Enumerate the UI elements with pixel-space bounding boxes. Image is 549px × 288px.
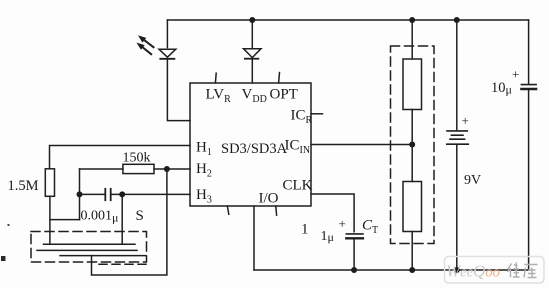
battery BT1 9V [447, 20, 469, 270]
wire ICIN to resistor divider [311, 144, 412, 146]
wire R2 right lead to H2 pin [154, 168, 190, 170]
wire IC bottom pin to bottom bus [253, 206, 255, 270]
svg-text:+: + [339, 216, 346, 231]
capacitor C3 10u [521, 85, 536, 89]
pin stub below I/O [275, 206, 278, 215]
svg-text:OPT: OPT [270, 87, 298, 103]
wire CLK to CT cap [311, 194, 354, 232]
wire C3 to bottom bus [528, 90, 530, 271]
capacitor C2 CT 1u [346, 234, 363, 238]
resistor RA (upper, in dashed box) [403, 59, 422, 110]
resistor RB (lower, in dashed box) [403, 182, 422, 232]
pin stub bottom-left [227, 206, 229, 214]
wire LED anode from top bus [166, 20, 168, 48]
scan noise speck [8, 224, 10, 226]
junction top bus / divider [409, 17, 415, 23]
junction top bus / battery [454, 17, 460, 23]
svg-text:1μ: 1μ [321, 229, 334, 244]
wire right edge from top bus to C3 [528, 20, 530, 84]
svg-text:9V: 9V [464, 173, 481, 188]
dashed enclosure resistor divider [391, 46, 435, 244]
svg-text:CLK: CLK [283, 178, 313, 194]
svg-text:1: 1 [301, 222, 309, 238]
wire top bus to RA [411, 20, 413, 59]
resistor R1 1.5M [45, 169, 54, 197]
junction CT bottom [351, 267, 357, 273]
touch plate S upper electrode [44, 243, 136, 245]
wire 150k left lead [80, 168, 123, 170]
pin stub ICR (right) [311, 113, 323, 115]
wire RA to RB [411, 110, 413, 182]
wire branch R1 leg to C1 node [50, 219, 80, 221]
junction top bus / VDD diode [249, 17, 255, 23]
LED D1 [137, 36, 176, 59]
wire H1 net from IC to R1 top [50, 146, 191, 169]
scan noise mark bottom-left [1, 256, 6, 261]
wire top supply bus [167, 19, 528, 21]
wire bottom ground bus [254, 269, 529, 271]
IC U1 SD3/SD3A body [190, 83, 311, 206]
svg-text:SD3/SD3A: SD3/SD3A [221, 141, 288, 157]
svg-text:+: + [462, 113, 469, 128]
junction divider bottom [409, 267, 415, 273]
junction battery bottom [454, 267, 460, 273]
svg-text:150k: 150k [123, 151, 151, 166]
wire RB to bottom bus [411, 232, 413, 271]
junction C1 left plate node [77, 191, 83, 197]
wire H2 node down to lower plate [92, 169, 167, 275]
junction divider midpoint [409, 142, 415, 148]
wire LED cathode down and into IC left side [167, 59, 190, 121]
pin stub OPT (top) [278, 73, 281, 84]
wire C1-left node vertical (joins 150k lead) [79, 169, 81, 220]
dashed second outline fragment of sensor S [99, 263, 147, 265]
junction C1 right / H3 node [119, 191, 125, 197]
dashed enclosure of sensor S [31, 232, 147, 263]
svg-text:I/O: I/O [259, 191, 279, 207]
touch plate S lower electrode [60, 255, 146, 257]
junction H2 node [164, 166, 170, 172]
svg-text:1.5M: 1.5M [8, 178, 39, 194]
watermark VeeQoo weiku [445, 257, 545, 284]
diode D2 on VDD pin [244, 20, 262, 83]
wire R1 bottom down to touch plate [49, 196, 51, 244]
wire C1 right node down to upper plate [121, 194, 123, 244]
capacitor C1 0.001u [80, 189, 191, 200]
svg-text:+: + [512, 67, 519, 82]
svg-text:0.001μ: 0.001μ [81, 209, 119, 225]
pin stub LVR (top) [214, 73, 217, 83]
svg-text:S: S [136, 208, 144, 224]
resistor R2 150k [123, 164, 154, 173]
wire CT to bottom bus [353, 239, 355, 270]
svg-text:10μ: 10μ [491, 80, 512, 97]
svg-text:WeeQoo: WeeQoo [446, 262, 500, 281]
